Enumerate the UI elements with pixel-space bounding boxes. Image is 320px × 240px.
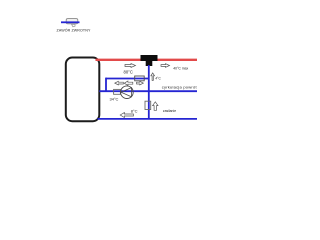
strainer on cold branch <box>145 101 151 109</box>
flow arrow up 4C <box>151 73 155 81</box>
bypass left pipe <box>105 78 107 92</box>
svg-text:zasilanie: zasilanie <box>163 109 176 113</box>
svg-text:80°C: 80°C <box>124 70 133 75</box>
flow arrow left cold supply <box>120 113 133 118</box>
circulation pump <box>121 86 134 99</box>
flow arrow left A <box>115 81 124 85</box>
thermostatic mixing valve (black T) <box>141 55 158 66</box>
tank (storage water heater) <box>66 58 100 122</box>
svg-text:8°C: 8°C <box>131 108 138 113</box>
isolation valve near pump <box>114 89 121 94</box>
cold supply pipe (bottom) <box>98 118 198 120</box>
svg-text:40°C max: 40°C max <box>173 67 188 71</box>
bypass top pipe <box>106 78 149 80</box>
legend check-valve icon pipe <box>61 21 80 23</box>
label 80C flow arrow <box>125 64 136 68</box>
svg-text:4°C: 4°C <box>155 76 161 80</box>
svg-text:34°C: 34°C <box>110 96 119 101</box>
legend check-valve icon body <box>66 19 78 27</box>
flow arrow up supply <box>153 102 158 111</box>
cold branch vertical pipe <box>148 65 150 119</box>
hot water pipe 80C (red) <box>96 59 198 61</box>
circulation return pipe <box>99 90 197 92</box>
label 40C max flow arrow <box>161 64 170 68</box>
svg-text:ZAWÓR ZWROTNY: ZAWÓR ZWROTNY <box>57 28 91 33</box>
flow arrow right C <box>137 81 144 85</box>
flow arrow left B <box>124 81 133 85</box>
svg-text:cyrkulacja powrót: cyrkulacja powrót <box>162 84 198 89</box>
check valve on bypass pipe <box>135 76 145 81</box>
